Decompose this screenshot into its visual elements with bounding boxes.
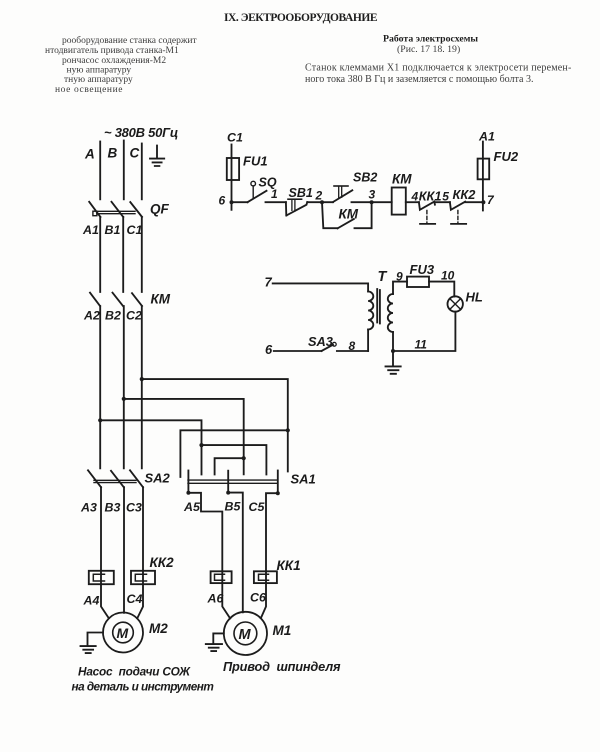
svg-text:SB1: SB1	[289, 186, 313, 200]
wire M2 case to ground	[88, 633, 104, 646]
svg-text:ную аппаратуру: ную аппаратуру	[67, 65, 132, 75]
node C5 corner	[276, 491, 280, 495]
svg-text:КК1: КК1	[419, 188, 442, 203]
breaker QF pole A blade	[89, 202, 100, 217]
svg-text:6: 6	[219, 194, 226, 208]
wire B1 QF to KM	[122, 217, 124, 292]
heater KK1 left element	[211, 571, 232, 583]
svg-text:11: 11	[415, 338, 428, 352]
node on C branch vertical	[286, 428, 290, 432]
svg-text:SA2: SA2	[145, 471, 171, 486]
svg-text:B5: B5	[225, 500, 242, 514]
svg-text:C: C	[130, 146, 140, 161]
svg-text:SA3: SA3	[308, 334, 333, 349]
breaker QF pole C blade	[130, 202, 142, 217]
switch SA1 moving contact A5 (through bar)	[187, 471, 189, 493]
svg-text:B2: B2	[105, 308, 121, 322]
svg-text:6: 6	[265, 342, 273, 357]
motor M1	[224, 612, 267, 655]
svg-text:FU1: FU1	[243, 154, 268, 169]
ground (motor M2)	[81, 646, 96, 653]
svg-text:T: T	[378, 269, 388, 285]
heater KK2 left element	[89, 571, 114, 584]
switch SA2 pole A blade	[88, 470, 101, 487]
contactor KM pole A blade	[90, 293, 100, 306]
svg-text:7: 7	[487, 193, 495, 207]
heater KK2 right element	[131, 571, 155, 584]
wire coil to KK1 contact	[406, 201, 419, 203]
wire A4 heater to motor M2	[101, 584, 109, 618]
svg-text:2: 2	[315, 189, 323, 203]
svg-text:B3: B3	[105, 501, 121, 515]
ground (transformer secondary)	[386, 366, 401, 373]
svg-text:1: 1	[271, 187, 278, 201]
svg-text:HL: HL	[466, 290, 483, 305]
wire lamp bottom to net 11	[393, 312, 455, 351]
svg-text:КК2: КК2	[453, 187, 476, 202]
svg-text:Работа электросхемы: Работа электросхемы	[383, 34, 478, 45]
wire C4 heater to motor M2	[137, 584, 143, 618]
contact KK2 release bar	[451, 223, 466, 225]
wire KM aux branch down from node 2	[322, 202, 338, 228]
switch SA1 moving contact C5 (through bar)	[277, 471, 279, 494]
wire net6 to SA3	[274, 350, 322, 352]
transformer T secondary winding	[388, 294, 393, 332]
wire crossover upper (to SA1 left fixed contact)	[180, 430, 287, 477]
wire B5 output to motor M1	[228, 493, 243, 613]
contact KK2 (thermal, NC) blade	[450, 202, 465, 210]
svg-text:рооборудование станка содержит: рооборудование станка содержит	[62, 35, 198, 46]
svg-text:A5: A5	[183, 500, 201, 514]
svg-text:SA1: SA1	[291, 472, 316, 487]
node 6	[230, 200, 234, 204]
svg-text:A1: A1	[478, 130, 495, 144]
switch SA2 linkage bar	[94, 480, 136, 482]
node 2	[320, 200, 324, 204]
wire crossover middle (to SA1 fixed contact)	[202, 445, 267, 474]
svg-text:QF: QF	[150, 202, 170, 217]
svg-text:B1: B1	[105, 223, 121, 237]
button SB1 plunger bar	[288, 198, 302, 200]
node 3	[370, 200, 374, 204]
svg-text:A1: A1	[82, 223, 99, 237]
wire C-phase branch to SA1 right fixed contact	[142, 379, 288, 471]
wire C1 QF to KM	[141, 217, 143, 292]
ground (motor M1)	[206, 644, 222, 651]
svg-text:C1: C1	[127, 223, 143, 237]
transformer T primary winding	[368, 292, 373, 330]
fuse FU3	[407, 277, 429, 287]
switch SA3 blade	[322, 345, 334, 351]
coil KM	[392, 188, 406, 215]
svg-text:8: 8	[349, 339, 356, 353]
svg-text:A3: A3	[80, 501, 97, 515]
node 7	[481, 200, 485, 204]
wire KK2 to node 7	[465, 201, 483, 203]
switch SQ blade	[248, 191, 267, 202]
svg-text:ного тока 380 В Гц и заземляет: ного тока 380 В Гц и заземляется с помощ…	[305, 74, 533, 85]
wire SB2 to KM coil	[352, 201, 392, 203]
wire C5 output jog	[266, 493, 278, 583]
breaker QF linkage bar	[97, 211, 135, 213]
wire FU3 to lamp	[429, 282, 454, 297]
wire KM aux to node 3	[355, 202, 372, 228]
wire phase A drop to QF	[99, 142, 101, 200]
contact KM auxiliary blade	[338, 219, 354, 228]
wire node6 to SQ	[232, 201, 248, 203]
wire SB1 to node2 to SB2	[308, 201, 334, 203]
ground (supply neutral)	[150, 146, 164, 167]
contact KK1 release bar	[420, 223, 435, 225]
wire KK1 to KK2	[435, 201, 450, 203]
wire B2 KM to SA2	[123, 306, 125, 468]
wire A1 QF to KM	[99, 217, 101, 292]
wire net7 to transformer primary	[273, 283, 368, 291]
wire phase C drop to QF	[141, 144, 143, 200]
wire A-phase branch to SA1	[100, 420, 201, 474]
wire SA3 to node 8 to primary bottom	[337, 350, 368, 352]
svg-text:М: М	[117, 625, 129, 641]
svg-text:Станок клеммами Х1 подключаетс: Станок клеммами Х1 подключается к электр…	[305, 62, 571, 73]
switch SA2 pole B blade	[111, 471, 124, 487]
svg-text:9: 9	[396, 269, 403, 283]
svg-text:C4: C4	[127, 592, 143, 606]
heater KK1 right element	[254, 571, 277, 583]
switch SA1 moving contact B5 (through bar)	[227, 471, 229, 493]
breaker QF handle square	[93, 211, 97, 216]
svg-text:A2: A2	[83, 308, 100, 322]
svg-text:М: М	[239, 627, 252, 643]
svg-text:КМ: КМ	[339, 207, 359, 222]
svg-text:IX. ЭЕКТРООБОРУДОВАНИЕ: IX. ЭЕКТРООБОРУДОВАНИЕ	[224, 12, 378, 24]
node B5 corner	[226, 491, 230, 495]
svg-text:5: 5	[442, 189, 449, 203]
switch SA2 pole C blade	[130, 470, 143, 487]
node C-phase branch	[140, 377, 144, 381]
wire B-phase branch to SA1	[124, 399, 244, 474]
wire secondary bottom	[392, 332, 394, 351]
contact KK1 (thermal, NC) blade	[419, 202, 435, 210]
switch SQ head circle	[251, 181, 256, 186]
svg-text:C5: C5	[249, 500, 266, 514]
svg-text:3: 3	[369, 188, 376, 202]
switch SA1 linkage bar	[188, 480, 278, 483]
wire secondary top to FU3	[393, 282, 407, 294]
wire C3 SA2 to KK2	[142, 487, 144, 584]
switch SQ stem	[252, 186, 254, 198]
wire A5 output jog	[188, 493, 222, 583]
svg-text:7: 7	[265, 275, 273, 290]
contactor KM pole B blade	[113, 293, 124, 306]
node A5 corner	[186, 491, 190, 495]
button SB2 plunger rod	[339, 187, 342, 198]
svg-text:тную аппаратуру: тную аппаратуру	[64, 75, 133, 85]
button SB1 plunger rod	[292, 200, 295, 211]
wire A6 heater to motor M1	[222, 583, 230, 618]
wire M1 case to ground	[213, 633, 224, 643]
wire C2 KM to SA2	[141, 306, 143, 468]
svg-text:(Рис. 17 18. 19): (Рис. 17 18. 19)	[397, 44, 460, 55]
button SB1 drop	[285, 202, 287, 215]
fuse FU2	[478, 159, 490, 180]
svg-text:~ 380B 50Гц: ~ 380B 50Гц	[104, 125, 178, 140]
contact KK1 release dashes	[426, 211, 428, 223]
svg-text:КМ: КМ	[151, 292, 171, 307]
svg-text:10: 10	[441, 268, 455, 282]
wire C6 heater to motor M1	[261, 583, 266, 618]
contact KK2 release dashes	[457, 211, 459, 223]
button SB1 blade	[287, 202, 308, 215]
svg-text:КМ: КМ	[392, 172, 412, 187]
svg-text:FU2: FU2	[494, 149, 519, 164]
svg-text:ное освещение: ное освещение	[55, 85, 123, 95]
node on B branch vertical	[242, 456, 246, 460]
svg-text:C6: C6	[250, 591, 266, 605]
svg-text:М1: М1	[273, 623, 292, 638]
svg-text:КК1: КК1	[277, 558, 301, 573]
svg-text:Привод шпинделя: Привод шпинделя	[223, 659, 341, 674]
svg-text:на деталь и инструмент: на деталь и инструмент	[72, 680, 214, 694]
transformer T core	[377, 289, 380, 324]
wire A2 KM to SA2	[99, 306, 101, 468]
button SB2 blade	[333, 190, 352, 202]
button SB2 plunger bar	[334, 185, 348, 187]
svg-text:4: 4	[411, 189, 419, 203]
wire SQ to SB1	[266, 201, 286, 203]
svg-text:рончасос охлаждения-М2: рончасос охлаждения-М2	[62, 56, 166, 66]
node A-phase branch	[98, 418, 102, 422]
lamp HL	[448, 296, 463, 311]
node on A branch vertical	[199, 443, 203, 447]
svg-text:C1: C1	[227, 131, 243, 145]
wire primary bottom	[367, 330, 369, 352]
contactor KM pole C blade	[132, 293, 142, 306]
wire A3 SA2 to KK2	[100, 487, 102, 584]
svg-text:C2: C2	[126, 308, 142, 322]
breaker QF pole B blade	[112, 202, 124, 217]
svg-text:A6: A6	[207, 592, 224, 606]
svg-text:C3: C3	[126, 501, 142, 515]
svg-text:B: B	[108, 146, 118, 161]
switch SA3 tip circle	[332, 342, 336, 346]
wire A1 tap down through FU2 to node 7	[482, 142, 484, 211]
svg-text:КК2: КК2	[150, 555, 175, 570]
motor M2	[103, 613, 143, 653]
wire phase B drop to QF	[123, 141, 125, 200]
svg-text:М2: М2	[149, 621, 168, 636]
wire B3 SA2 to motor M2	[123, 487, 125, 613]
fuse FU1	[227, 158, 239, 180]
wire crossover lower (to SA1 fixed contact)	[215, 458, 244, 474]
svg-text:Насос подачи СОЖ: Насос подачи СОЖ	[78, 665, 191, 679]
svg-text:FU3: FU3	[410, 262, 435, 277]
svg-text:нтодвигатель привода станка-М1: нтодвигатель привода станка-М1	[45, 46, 179, 56]
svg-text:SB2: SB2	[353, 171, 377, 185]
svg-text:A4: A4	[83, 594, 100, 608]
svg-text:A: A	[84, 147, 95, 162]
wire C1 tap down to node 6	[231, 145, 233, 210]
node B-phase branch	[122, 397, 126, 401]
node secondary-ground junction	[391, 349, 395, 353]
wire junction to ground	[392, 351, 394, 366]
